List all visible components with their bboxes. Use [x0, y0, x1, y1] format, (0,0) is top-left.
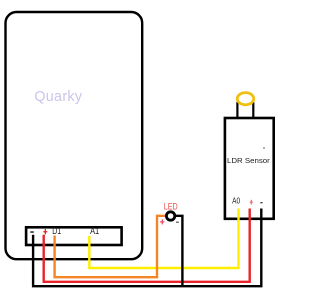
pin label - (GND)	[30, 231, 34, 233]
LDR photoresistor head	[237, 93, 253, 105]
svg-text:A0: A0	[232, 196, 240, 206]
Quarky board U1	[6, 12, 143, 259]
wire black: LED cathode to GND bus	[175, 216, 182, 286]
pin header strip J1	[26, 227, 122, 245]
LED + label	[160, 219, 164, 224]
svg-text:D1: D1	[52, 226, 61, 236]
wire black: board GND to LDR -	[33, 209, 261, 287]
LDR leg right	[252, 102, 254, 118]
LDR leg left	[236, 102, 238, 118]
LDR sensor module U2	[225, 118, 274, 219]
wire orange: board D1 to LED anode	[55, 216, 167, 277]
wire red: board VCC to LDR +	[44, 209, 250, 282]
small dot on LDR module	[263, 147, 265, 149]
wire yellow: board A1 to LDR A0	[89, 209, 238, 269]
LED D1 body	[166, 212, 174, 220]
LED - label	[176, 222, 179, 223]
svg-text:Quarky: Quarky	[34, 89, 82, 105]
svg-text:A1: A1	[90, 226, 99, 236]
svg-text:LED: LED	[164, 202, 178, 212]
pin label + (VCC)	[43, 229, 47, 234]
svg-text:LDR Sensor: LDR Sensor	[227, 156, 270, 165]
LDR pin label +	[250, 200, 253, 205]
LDR pin label -	[260, 202, 262, 203]
